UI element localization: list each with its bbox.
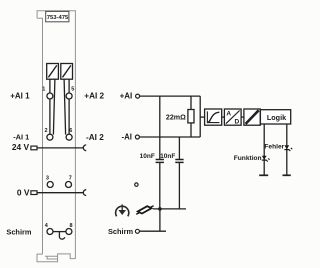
wire C1 down to shield line [159, 163, 161, 209]
svg-text:+AI: +AI [120, 92, 133, 101]
svg-text:3: 3 [46, 175, 49, 181]
wire stub to filter [200, 116, 204, 118]
wire box1 to terminal 1 [49, 79, 51, 93]
module body contour 753-475 [37, 11, 75, 262]
svg-text:Schirm: Schirm [6, 227, 31, 236]
svg-text:7: 7 [69, 175, 72, 181]
0V power jumper contact [31, 191, 37, 195]
Fehler line end bar [283, 174, 291, 176]
LED box channel 1 [47, 64, 59, 80]
svg-text:Fehler: Fehler [264, 143, 284, 150]
shield clamp flag symbol [136, 206, 153, 215]
galvanic isolation block [244, 109, 260, 125]
wire 0V through module [37, 192, 83, 194]
junction dot [158, 207, 162, 211]
filter block [205, 109, 222, 125]
LED box channel 2 [61, 64, 73, 80]
wire Fehler LED line [286, 124, 288, 175]
svg-text:+AI 1: +AI 1 [10, 91, 30, 100]
svg-text:6: 6 [69, 128, 72, 134]
shield bus line [153, 208, 186, 210]
svg-text:8: 8 [69, 223, 72, 229]
unconnected stub circle [135, 183, 138, 186]
shunt resistor 22mOhm [190, 96, 192, 109]
wire box1 second leg to terminal 2 [53, 79, 55, 134]
label box 753-475 [46, 11, 69, 21]
logic block U1 [260, 110, 290, 124]
svg-text:24 V: 24 V [12, 142, 30, 152]
wire 24V through module [37, 147, 83, 149]
wire terminal 1 to terminal 2 [49, 99, 51, 134]
wire vertical +AI to capacitor C1 [159, 96, 161, 159]
shield link terminals 4-8 with clamp loop [53, 231, 66, 233]
wire Schirm [139, 230, 166, 232]
svg-text:2: 2 [44, 128, 47, 134]
wire stub [222, 116, 225, 118]
capacitor C1 10nF [156, 159, 164, 161]
earth via DIN rail symbol [116, 204, 129, 216]
wire stub [241, 116, 244, 118]
svg-text:1: 1 [42, 87, 45, 93]
terminal 3 [47, 182, 53, 188]
terminal 7 [66, 182, 72, 188]
terminal 8 [66, 229, 72, 235]
svg-text:0 V: 0 V [17, 188, 30, 198]
wire terminal 5 to terminal 6 [68, 99, 70, 134]
svg-text:-AI 1: -AI 1 [13, 132, 29, 141]
svg-text:10nF: 10nF [140, 153, 155, 160]
Funktion line end bar [259, 174, 268, 176]
svg-text:-AI 2: -AI 2 [86, 133, 104, 142]
svg-text:Schirm: Schirm [108, 227, 133, 236]
terminal 1 [47, 93, 53, 99]
wire junction down to Schirm [159, 209, 161, 231]
24V power jumper contact [31, 146, 37, 150]
svg-text:A: A [226, 110, 231, 117]
wire box2 to terminal 5 [68, 79, 70, 93]
terminal 5 [66, 93, 72, 99]
terminal 6 [66, 134, 72, 140]
wire C2 down to shield line [178, 163, 180, 209]
svg-text:5: 5 [71, 87, 74, 93]
capacitor C2 10nF [175, 159, 183, 161]
svg-text:Logik: Logik [267, 113, 286, 122]
svg-text:10nF: 10nF [160, 153, 175, 160]
svg-text:+AI 2: +AI 2 [84, 92, 104, 101]
wire vertical -AI to capacitor C2 [178, 137, 180, 159]
0V pass contact arc [83, 190, 86, 196]
wire right vertical [199, 96, 201, 137]
24V pass contact arc [83, 145, 86, 151]
wire Funktion LED line [263, 124, 265, 175]
svg-text:22mΩ: 22mΩ [166, 113, 186, 121]
svg-text:D: D [234, 119, 239, 126]
terminal 2 [47, 134, 53, 140]
terminal 4 [47, 229, 53, 235]
wire +AI top rail [140, 95, 201, 97]
svg-text:753-475: 753-475 [47, 15, 69, 21]
wire box2 second leg to terminal 6 [64, 79, 66, 134]
wire -AI bottom rail [139, 136, 200, 138]
svg-text:Funktion: Funktion [234, 155, 262, 162]
svg-text:-AI: -AI [122, 132, 132, 141]
A/D converter block [224, 109, 241, 126]
